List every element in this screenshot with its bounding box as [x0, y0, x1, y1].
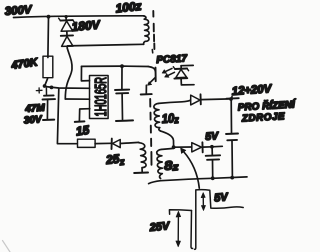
- diode D4 (output rectifier): [191, 95, 200, 105]
- transformer core (upper dashes): [153, 11, 154, 49]
- svg-text:5V: 5V: [214, 191, 230, 204]
- node Vcc junction dot B: [50, 86, 54, 90]
- wire 10Z bottom to junction: [160, 131, 173, 147]
- capacitor C1 47M/30V plus sign: [36, 88, 42, 93]
- svg-text:47M: 47M: [24, 103, 46, 115]
- node junction dot on rail (zener tap): [65, 15, 68, 18]
- LED of PC817: [181, 64, 193, 66]
- wire diode to 5V node: [203, 146, 212, 148]
- capacitor C3 (5V): [211, 147, 213, 155]
- dimension arrow 5V (waveform): [202, 195, 204, 207]
- node dot 5V: [210, 145, 214, 149]
- winding 8Z: [157, 149, 163, 178]
- resistor 470K: [43, 56, 53, 77]
- capacitor C4 on 12-20V rail: [226, 133, 238, 136]
- wire rectifier to 12-20V node: [201, 98, 231, 101]
- svg-text:PC817: PC817: [156, 53, 188, 66]
- wire 15R to diode: [95, 142, 111, 144]
- wire 10Z top to rectifier: [159, 100, 191, 103]
- ground bar under C1: [43, 119, 54, 121]
- dimension arrow 25V: [177, 215, 179, 243]
- wire IC pin1 up to FB rail: [81, 66, 89, 81]
- phototransistor of PC817: [148, 67, 155, 72]
- svg-text:8z: 8z: [164, 158, 179, 174]
- wire rail to 470K: [47, 17, 50, 58]
- svg-text:100z: 100z: [115, 0, 142, 15]
- svg-text:30V: 30V: [23, 114, 43, 126]
- diode D3 (cathode left): [111, 139, 113, 149]
- ground bar under IC: [75, 120, 85, 123]
- svg-text:10z: 10z: [161, 111, 179, 127]
- ground bar under phototransistor emitter: [141, 93, 152, 95]
- svg-text:25V: 25V: [148, 220, 171, 234]
- svg-text:180V: 180V: [71, 18, 101, 34]
- stray dash: [151, 50, 153, 53]
- svg-text:1H0165R: 1H0165R: [93, 77, 110, 117]
- wire FB top rail to optocoupler: [82, 65, 149, 67]
- svg-text:12÷20V: 12÷20V: [231, 83, 273, 98]
- wire branch Vcc node down to 15R row: [57, 89, 77, 144]
- ground bar under C2: [116, 119, 133, 122]
- ground bar under 25Z: [134, 172, 148, 175]
- wire into IC pin3: [65, 98, 89, 100]
- zener D1 180V: [59, 17, 75, 36]
- node dot on bottom rail: [230, 176, 234, 180]
- wire bottom rail: [149, 177, 247, 184]
- wire 5V stub: [212, 145, 222, 148]
- wire diode to 25Z winding: [120, 142, 139, 143]
- node dot 10Z/8Z junction: [172, 145, 176, 149]
- scan artifact bottom-left: [3, 241, 11, 252]
- wire Vcc node to IC pin2: [45, 87, 90, 89]
- wire top 300V rail: [14, 16, 145, 18]
- winding 25Z: [139, 143, 146, 172]
- waveform trace: [169, 210, 191, 214]
- terminal tick 12-20V: [226, 97, 238, 100]
- wire 8Z top to junction: [162, 148, 174, 149]
- diode D2 (below zener): [61, 35, 73, 46]
- node Vcc junction dot A: [43, 84, 47, 88]
- IC U1 1H0165R: [90, 76, 109, 119]
- node dot 12-20V: [229, 97, 233, 101]
- svg-text:ZDROJE: ZDROJE: [241, 111, 286, 124]
- svg-text:15: 15: [75, 123, 90, 139]
- capacitor C1 47M/30V: [45, 88, 47, 94]
- capacitor C2 (FB): [121, 66, 123, 89]
- diode D5 (5V rectifier): [192, 143, 202, 152]
- svg-text:5V: 5V: [205, 130, 220, 143]
- resistor R2 15: [78, 139, 96, 147]
- svg-text:25z: 25z: [104, 151, 125, 169]
- node dot on bottom rail: [211, 176, 215, 180]
- light arrows of optocoupler: [164, 68, 172, 72]
- svg-text:470K: 470K: [10, 56, 40, 72]
- wire zener string down to IC pin3 (drain): [65, 48, 72, 99]
- wire drain node to primary bottom: [67, 44, 143, 48]
- svg-text:300V: 300V: [4, 4, 33, 18]
- wire junction to 5V diode: [174, 146, 192, 148]
- wire IC gnd pin: [79, 109, 89, 121]
- transformer core (lower dashes): [150, 99, 151, 165]
- wire 470K to node: [45, 79, 48, 86]
- node dot FB cap tap: [120, 64, 124, 68]
- node junction dot on rail (470K tap): [47, 15, 51, 19]
- wire 12-20V rail down: [230, 99, 232, 133]
- winding 10Z: [154, 103, 160, 130]
- curved arrow waveform to node: [184, 152, 200, 189]
- winding 100Z primary: [144, 16, 150, 44]
